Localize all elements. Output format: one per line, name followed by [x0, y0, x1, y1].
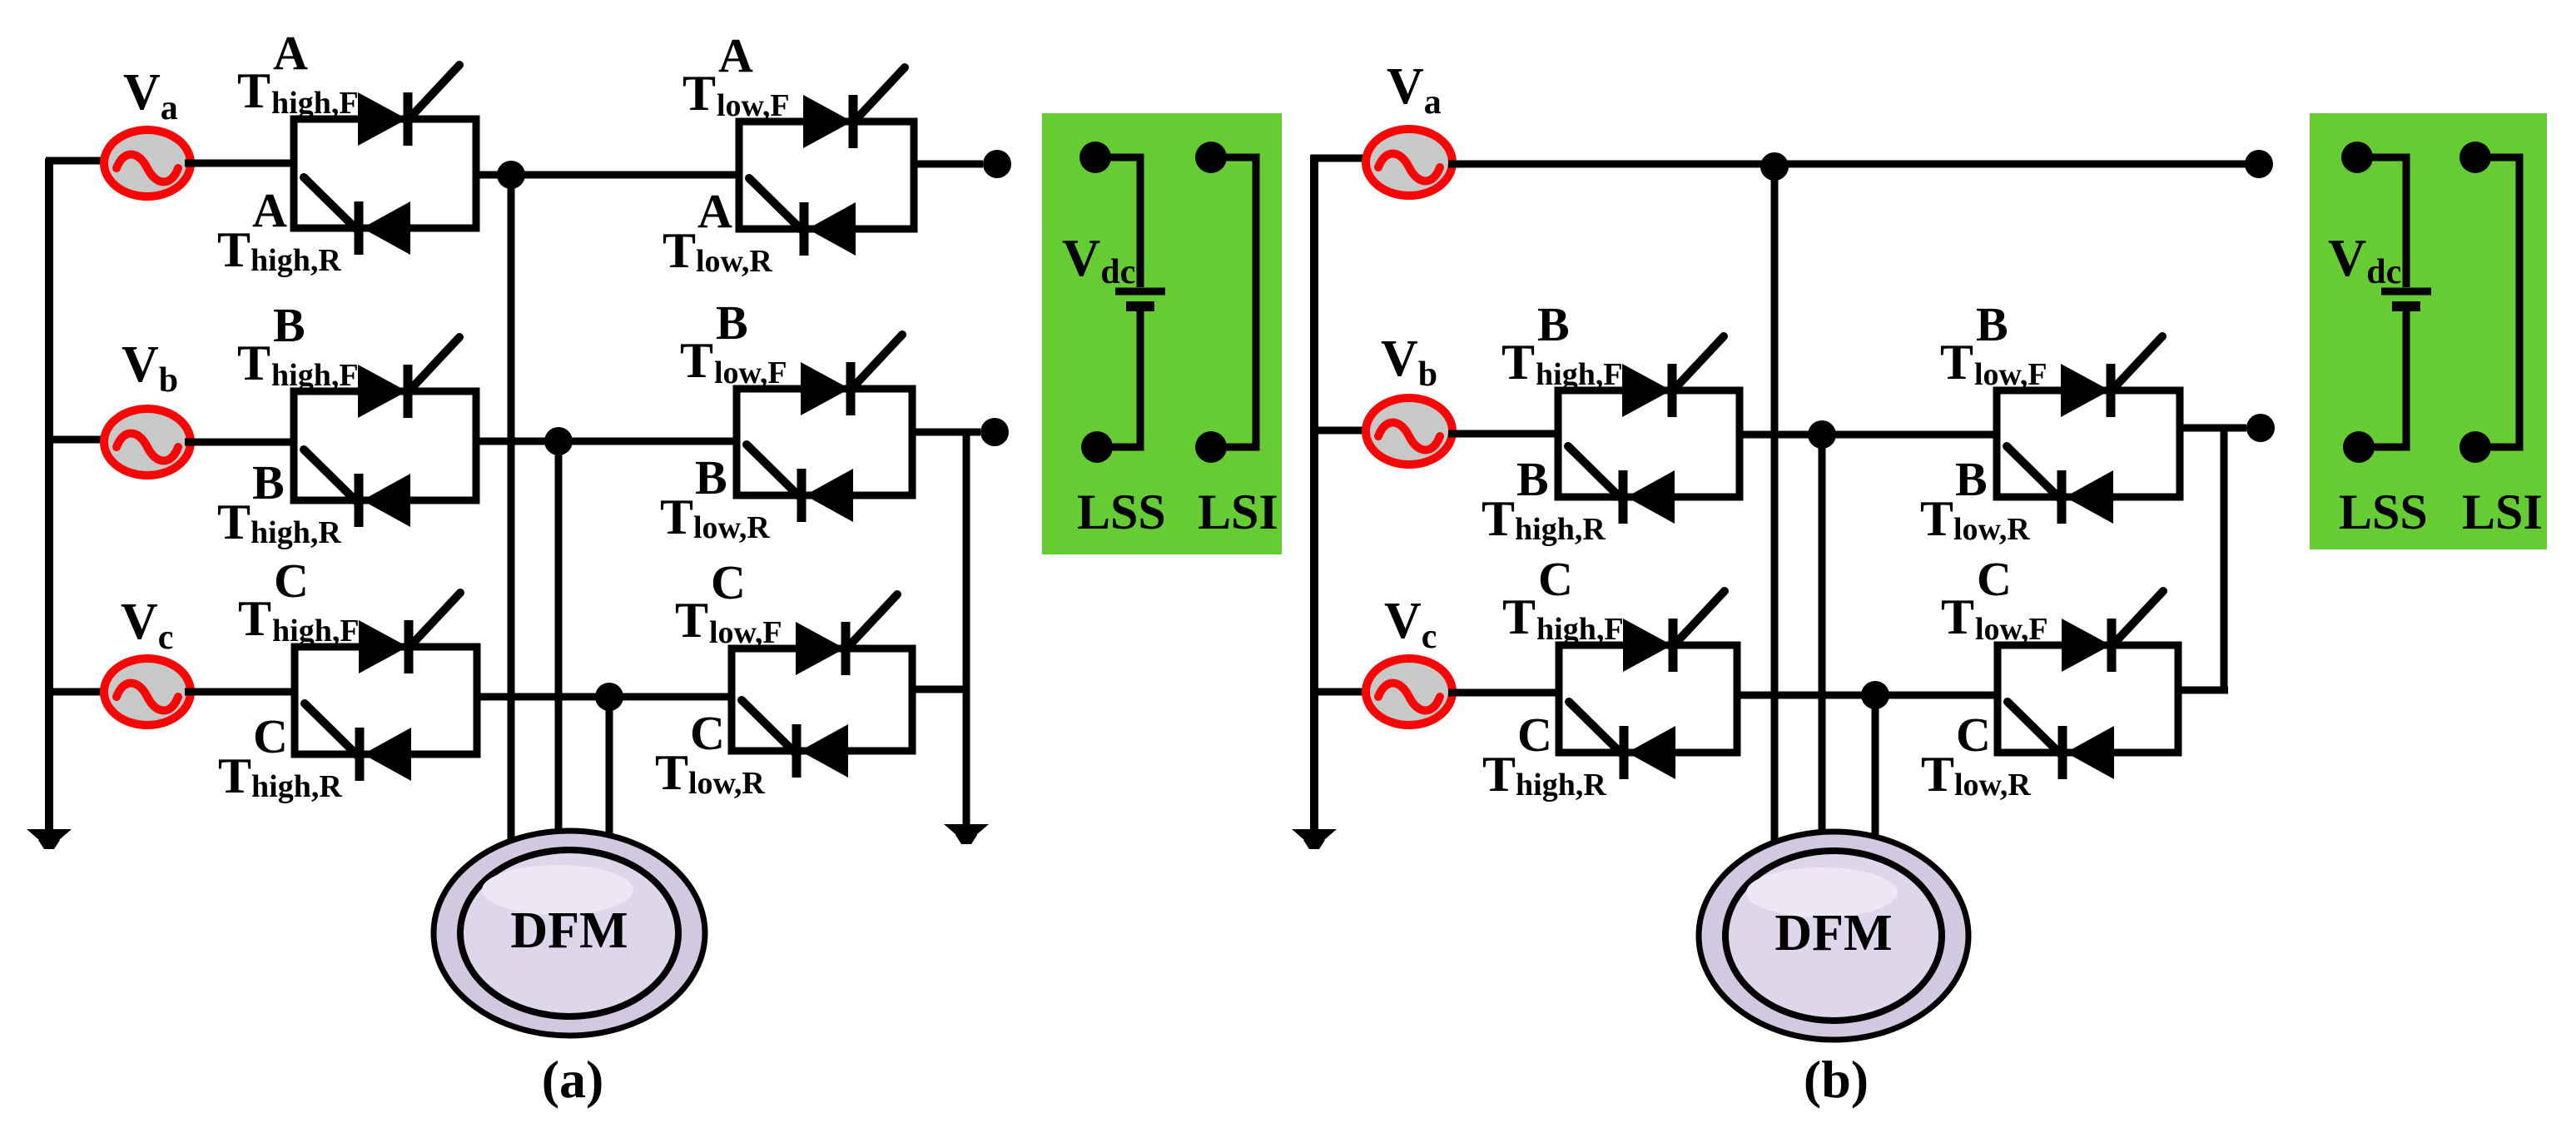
ac source Va	[104, 130, 191, 196]
node (b) LSS top terminal	[2341, 142, 2373, 173]
thyristor pair block TC_high (a) phase C high	[295, 593, 477, 781]
svg-text:T: T	[218, 748, 251, 803]
thyristor pair block TB_high (b) phase B high	[1558, 336, 1740, 524]
svg-text:T: T	[237, 63, 271, 118]
svg-text:C: C	[690, 706, 725, 760]
svg-text:A: A	[718, 28, 753, 82]
svg-text:low,F: low,F	[709, 615, 782, 650]
battery Vdc short plate	[1126, 301, 1154, 311]
ground (b) left bus ground	[1292, 829, 1337, 849]
thyristor pair block TB_low (b) phase B low	[1997, 336, 2180, 524]
wire (a) A low out	[914, 161, 983, 168]
svg-text:T: T	[675, 593, 708, 648]
svg-text:high,F: high,F	[271, 358, 359, 393]
wire (a) Vc to T_high C	[185, 688, 297, 696]
green converter box (b)	[2310, 113, 2547, 549]
wire (b) right vertical B-C link	[2221, 428, 2228, 691]
svg-text:low,R: low,R	[1953, 512, 2030, 547]
LSI leg	[1211, 157, 1256, 447]
svg-text:C: C	[711, 555, 746, 609]
node (a) LSI top terminal	[1195, 142, 1227, 173]
thyristor pair block TC_high (b) phase C high	[1559, 591, 1737, 779]
svg-text:LSS: LSS	[2339, 485, 2428, 539]
wire (a) bus stub to Vb	[46, 436, 105, 444]
svg-text:LSI: LSI	[1198, 485, 1278, 539]
svg-text:low,R: low,R	[688, 766, 765, 801]
ground (a) left bus ground	[27, 829, 72, 849]
LSS leg with battery Vdc	[2357, 157, 2406, 447]
ac source Vb	[1366, 398, 1452, 465]
wire (b) B low out	[2180, 425, 2246, 432]
wire (a) bus stub to Va	[46, 157, 105, 165]
svg-text:T: T	[238, 591, 271, 646]
svg-text:low,F: low,F	[714, 355, 787, 390]
wire (b) bus stub to Vb	[1311, 427, 1368, 435]
svg-text:C: C	[253, 709, 288, 763]
svg-text:low,F: low,F	[1974, 357, 2047, 392]
green converter box (a)	[1042, 113, 1282, 554]
wire (a) phase B drop to DFM	[555, 441, 563, 849]
LSI leg	[2475, 157, 2519, 447]
wire (a) phase C drop to DFM	[606, 697, 613, 851]
svg-text:C: C	[1517, 708, 1552, 762]
wire (a) bus stub to Vc	[46, 688, 105, 696]
svg-text:T: T	[682, 66, 716, 121]
node (a) LSS top terminal	[1080, 142, 1111, 173]
wire (b) phase A drop to DFM	[1771, 165, 1779, 851]
svg-text:LSI: LSI	[2462, 485, 2543, 539]
svg-text:B: B	[1976, 297, 2008, 351]
thyristor pair block TA_low (a) phase A low	[739, 67, 914, 256]
DFM machine (a)	[434, 831, 705, 1036]
svg-text:low,R: low,R	[1954, 768, 2031, 803]
svg-text:low,F: low,F	[717, 88, 790, 123]
svg-text:T: T	[1482, 491, 1515, 546]
svg-text:T: T	[1502, 589, 1536, 644]
wire (b) bus stub to Vc	[1311, 688, 1368, 696]
node (b) phase B output terminal	[2246, 414, 2275, 442]
thyristor pair block TB_high (a) phase B high	[294, 337, 476, 527]
wire (b) B high out to low in	[1740, 431, 2000, 439]
svg-text:B: B	[695, 450, 727, 504]
wire (b) C high out to low in	[1737, 692, 2001, 699]
svg-text:low,R: low,R	[696, 244, 772, 279]
node (a) phase C junction	[595, 683, 623, 711]
svg-text:C: C	[1977, 552, 2012, 606]
svg-text:A: A	[273, 26, 308, 80]
wire (a) B low out	[912, 429, 980, 436]
svg-text:A: A	[697, 184, 732, 238]
wire (a) left phase bus vertical	[45, 158, 53, 831]
node (b) phase A output terminal	[2245, 150, 2273, 178]
svg-text:B: B	[1516, 452, 1549, 506]
svg-text:high,R: high,R	[251, 243, 341, 278]
ac source Va	[1366, 129, 1452, 196]
node (b) phase A junction	[1760, 152, 1789, 181]
node (a) phase A junction	[497, 161, 525, 189]
svg-text:C: C	[1538, 552, 1573, 606]
svg-text:A: A	[252, 183, 287, 237]
ac source Vc	[104, 658, 191, 725]
node (a) LSS bottom terminal	[1081, 431, 1113, 463]
wire (a) Va to T_high A	[185, 160, 297, 167]
wire (a) B high out to low in	[476, 438, 740, 445]
battery Vdc short plate	[2392, 301, 2420, 311]
wire (a) C high out to low in	[477, 693, 735, 701]
svg-text:(a): (a)	[542, 1050, 604, 1109]
svg-text:B: B	[716, 296, 748, 350]
battery Vdc long plate	[2381, 288, 2431, 296]
node (a) LSI bottom terminal	[1195, 431, 1227, 463]
thyristor pair block TB_low (a) phase B low	[737, 335, 912, 522]
node (b) LSI bottom terminal	[2459, 431, 2491, 463]
svg-text:T: T	[655, 745, 688, 800]
svg-text:B: B	[273, 298, 305, 352]
wire (b) Vc to T_high C	[1448, 689, 1562, 697]
wire (b) left phase bus vertical	[1310, 155, 1318, 831]
ac source Vb	[104, 409, 191, 475]
svg-text:T: T	[1920, 491, 1953, 546]
svg-text:C: C	[1956, 708, 1991, 762]
thyristor pair block TC_low (a) phase C low	[732, 594, 912, 778]
svg-text:T: T	[1921, 747, 1954, 802]
svg-text:high,R: high,R	[251, 515, 341, 550]
svg-text:B: B	[252, 455, 285, 509]
node (a) phase A output terminal	[983, 150, 1011, 178]
svg-text:T: T	[660, 489, 693, 544]
svg-text:high,R: high,R	[251, 769, 342, 804]
wire (b) Va direct line	[1448, 161, 2259, 168]
ac source Vc	[1366, 658, 1452, 725]
svg-text:T: T	[237, 335, 271, 390]
svg-text:T: T	[1941, 589, 1974, 644]
svg-text:LSS: LSS	[1077, 485, 1166, 539]
thyristor pair block TC_low (b) phase C low	[1998, 591, 2178, 779]
svg-text:high,F: high,F	[272, 614, 360, 648]
svg-text:T: T	[1482, 747, 1516, 802]
svg-text:high,R: high,R	[1516, 768, 1606, 803]
svg-text:B: B	[1537, 297, 1570, 351]
node (b) LSI top terminal	[2459, 142, 2491, 173]
svg-text:low,R: low,R	[693, 510, 770, 545]
svg-text:DFM: DFM	[1774, 905, 1892, 962]
svg-text:high,R: high,R	[1515, 512, 1606, 547]
svg-text:high,F: high,F	[1536, 612, 1624, 647]
svg-text:high,F: high,F	[1536, 357, 1623, 392]
svg-text:T: T	[663, 223, 696, 278]
svg-text:T: T	[217, 222, 251, 277]
wire (b) phase C drop to DFM	[1872, 695, 1879, 851]
wire (a) A high out to low in	[476, 171, 742, 179]
thyristor pair block TA_high (a) phase A high	[294, 65, 476, 255]
wire (b) phase B drop to DFM	[1819, 435, 1826, 851]
ground (a) right ground	[944, 824, 989, 844]
wire (a) C low out	[912, 686, 970, 693]
DFM machine (b)	[1699, 832, 1968, 1040]
svg-text:T: T	[1940, 335, 1973, 390]
svg-text:DFM: DFM	[510, 902, 628, 959]
svg-text:low,F: low,F	[1975, 612, 2048, 647]
node (b) phase B junction	[1808, 420, 1836, 449]
svg-text:T: T	[217, 494, 251, 549]
node (a) phase B output terminal	[980, 418, 1009, 446]
svg-text:high,F: high,F	[271, 86, 359, 121]
wire (b) C low out to link	[2178, 687, 2228, 694]
wire (a) phase A drop to DFM	[508, 175, 515, 849]
svg-text:B: B	[1955, 452, 1988, 506]
svg-text:T: T	[680, 333, 713, 388]
node (b) phase C junction	[1861, 681, 1889, 709]
LSS leg with battery Vdc	[1095, 157, 1140, 447]
wire (a) Vb to T_high B	[185, 439, 297, 446]
svg-text:T: T	[1501, 335, 1535, 390]
node (a) phase B junction	[544, 427, 573, 455]
svg-text:(b): (b)	[1804, 1050, 1869, 1109]
wire (b) bus stub to Va	[1311, 155, 1368, 162]
node (b) LSS bottom terminal	[2343, 431, 2375, 463]
svg-text:C: C	[274, 554, 309, 608]
battery Vdc long plate	[1115, 288, 1165, 296]
wire (b) Vb to T_high B	[1448, 430, 1561, 438]
wire (a) right vertical to ground	[963, 432, 970, 826]
